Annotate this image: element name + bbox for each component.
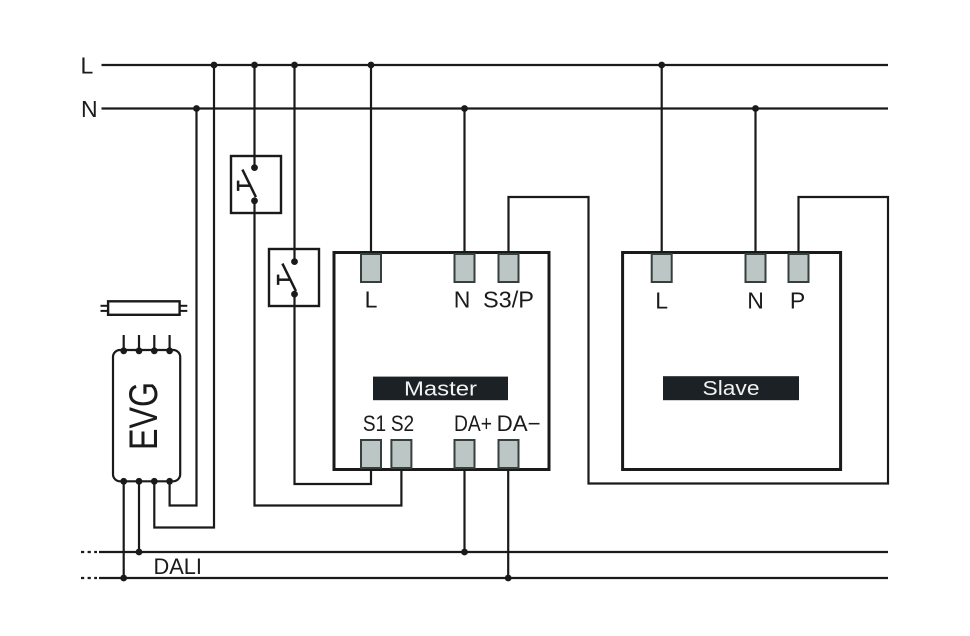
terminal Master DA+: [455, 440, 475, 468]
wire EVG pin4 to N-bus: [170, 109, 197, 506]
node EVG pin top 3: [151, 347, 158, 354]
svg-text:N: N: [454, 287, 471, 313]
terminal Master DA-: [499, 440, 519, 468]
terminal Slave N: [746, 254, 766, 282]
node L/T2 junction: [291, 62, 298, 69]
device Slave ECG U3: [623, 253, 841, 470]
wire EVG lamp stub 4: [169, 335, 171, 351]
wire EVG lamp stub 3: [153, 335, 155, 351]
node N/Slave-N junction: [752, 105, 759, 112]
svg-text:DA+: DA+: [454, 411, 492, 436]
svg-text:N: N: [81, 96, 98, 122]
wire EVG pin3 to L-bus: [154, 65, 214, 528]
node L/Master-L junction: [368, 62, 375, 69]
wire EVG pin1 to DALI line 2: [123, 481, 125, 578]
node EVG pin bottom 3: [151, 478, 158, 485]
wire DALI line 2 dotted continuation: [81, 577, 97, 579]
node L/pin3 junction: [211, 62, 218, 69]
node L/Slave-L junction: [658, 62, 665, 69]
label Slave nameplate: [663, 376, 799, 400]
wire L-bus to pushbutton T2: [293, 65, 295, 262]
svg-text:DA−: DA−: [497, 411, 541, 436]
svg-text:L: L: [81, 53, 94, 79]
wire L-bus to Slave terminal L: [661, 65, 663, 254]
terminal Master L: [361, 254, 381, 282]
wire N bus: [102, 107, 889, 109]
svg-text:S3/P: S3/P: [483, 287, 534, 313]
label Master nameplate: [373, 377, 508, 401]
svg-text:P: P: [790, 288, 805, 314]
terminal Slave P: [789, 254, 809, 282]
node EVG pin bottom 2: [136, 478, 143, 485]
node EVG pin top 4: [166, 347, 173, 354]
terminal Master S2: [391, 440, 411, 468]
wire pushbutton T1 to Master S2: [255, 201, 402, 506]
svg-text:EVG: EVG: [122, 382, 166, 450]
terminal Master S1: [361, 440, 381, 468]
pushbutton T1: [231, 156, 281, 213]
wire N-bus to Master terminal N: [463, 109, 465, 254]
wire N-bus to Slave terminal N: [754, 109, 756, 254]
node EVG pin top 2: [136, 347, 143, 354]
terminal Slave L: [652, 254, 672, 282]
wire EVG pin2 to DALI line 1: [138, 481, 140, 552]
svg-text:Slave: Slave: [703, 377, 760, 400]
device Master ECG U2: [334, 253, 549, 470]
node DALI1/DA+ junction: [461, 549, 468, 556]
node DALI1/pin2 junction: [136, 549, 143, 556]
svg-text:DALI: DALI: [154, 554, 203, 579]
wire L-bus to pushbutton T1: [253, 65, 255, 168]
svg-text:Master: Master: [404, 378, 477, 401]
node L/T1 junction: [251, 62, 258, 69]
wire DALI line 1: [99, 551, 888, 553]
wire EVG lamp stub 1: [123, 335, 125, 351]
node EVG pin bottom 1: [120, 478, 127, 485]
wire L bus: [102, 64, 889, 66]
wire DALI line 1 dotted continuation: [81, 551, 97, 553]
wire pushbutton T2 to Master S1: [295, 294, 372, 484]
terminal Master N: [455, 254, 475, 282]
terminal Master S3/P: [499, 254, 519, 282]
svg-text:S2: S2: [391, 411, 414, 436]
wire Master DA- to DALI line 2: [507, 469, 509, 579]
wire Master DA+ to DALI line 1: [463, 469, 465, 553]
node EVG pin top 1: [120, 347, 127, 354]
wire DALI line 2: [99, 577, 888, 579]
wire Master S3/P to Slave P: [509, 197, 889, 484]
svg-text:S1: S1: [363, 411, 386, 436]
ballast EVG U1: [113, 350, 180, 481]
pushbutton T2: [269, 249, 319, 306]
svg-text:L: L: [655, 288, 668, 314]
node EVG pin bottom 4: [166, 478, 173, 485]
wire L-bus to Master terminal L: [370, 65, 372, 254]
svg-text:N: N: [747, 288, 764, 314]
node DALI2/pin1 junction: [120, 575, 127, 582]
node N/pin4 junction: [193, 105, 200, 112]
lamp LA1 fluorescent tube: [101, 301, 188, 315]
node DALI2/DA- junction: [505, 575, 512, 582]
node N/Master-N junction: [461, 105, 468, 112]
svg-text:L: L: [365, 287, 378, 313]
wire EVG lamp stub 2: [138, 335, 140, 351]
